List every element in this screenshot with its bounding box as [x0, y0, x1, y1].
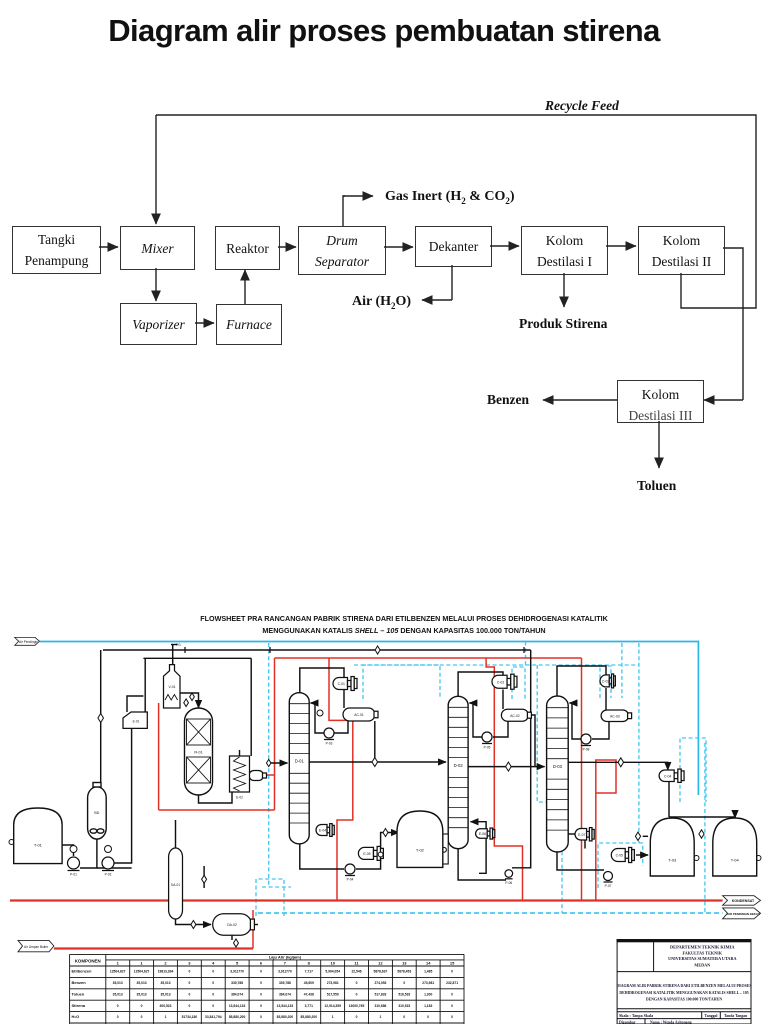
wire steam riser x274 (red) — [274, 658, 276, 810]
svg-text:AC-03: AC-03 — [610, 714, 620, 718]
wire E-02 drop — [239, 750, 241, 756]
wire D-01 overhead — [300, 668, 344, 693]
wire cw D-02 drop (cyan dashed) — [537, 665, 562, 913]
svg-text:0: 0 — [356, 1015, 358, 1019]
svg-text:35,013: 35,013 — [137, 981, 147, 985]
wire AC-01 to P-03 — [334, 721, 348, 733]
wire cw branch D-01 area (cyan dashed) — [268, 643, 270, 887]
svg-text:3,911770: 3,911770 — [278, 970, 292, 974]
wire AC-03 to P-08 — [592, 722, 609, 740]
wire D-03 bottoms — [557, 852, 604, 870]
valve D-01 feed — [266, 759, 270, 766]
svg-text:AC-01: AC-01 — [354, 713, 364, 717]
svg-text:12: 12 — [378, 960, 383, 965]
wire Air H2O outlet — [422, 265, 452, 300]
svg-text:47,438: 47,438 — [304, 992, 314, 996]
wire deaerator line — [203, 866, 205, 888]
condenser C-01 — [333, 677, 357, 691]
wire steam drop x329 (red) — [329, 658, 353, 901]
wire kondensat main (red) — [10, 899, 723, 901]
wire P-04 to T-02 riser — [356, 833, 399, 870]
wire boiler feed riser (red) — [252, 910, 254, 949]
svg-text:AIR PENDINGIN BEKAS: AIR PENDINGIN BEKAS — [727, 912, 760, 916]
tank T-04 — [713, 818, 757, 876]
wire D-02 reflux — [469, 703, 482, 737]
svg-text:85,880,200: 85,880,200 — [277, 1015, 294, 1019]
drum D-02 side pocket — [442, 834, 449, 864]
wire cooling water return bottom (cyan dashed) — [258, 912, 723, 914]
box Kolom Destilasi II — [638, 226, 725, 275]
svg-text:AC-02: AC-02 — [510, 714, 520, 718]
svg-text:BD: BD — [94, 811, 99, 815]
wire sub header — [143, 657, 251, 659]
accumulator DA-02 — [213, 914, 255, 936]
svg-text:D-02: D-02 — [454, 763, 464, 768]
svg-text:DEHIDROGENASI KATALITIK MENGGU: DEHIDROGENASI KATALITIK MENGGUNAKAN KATA… — [619, 991, 748, 995]
stream flag D-02 product — [506, 762, 512, 771]
svg-text:0: 0 — [356, 981, 358, 985]
valve between T-03 T-04 — [699, 830, 704, 838]
stream table — [70, 954, 464, 1024]
wire V-01 riser — [172, 650, 174, 665]
svg-text:12,914,359: 12,914,359 — [324, 1004, 341, 1008]
svg-text:0: 0 — [427, 1015, 429, 1019]
svg-text:T-03: T-03 — [668, 858, 677, 863]
svg-text:C-03: C-03 — [602, 680, 609, 684]
pump P-01 — [68, 857, 80, 877]
vessel DA-01 — [169, 848, 183, 919]
svg-text:3: 3 — [188, 960, 191, 965]
wire D-01 product — [309, 761, 446, 763]
wire steam bottom left (red) — [159, 809, 275, 811]
arrow Produk Stirena — [563, 273, 565, 307]
box Dekanter — [415, 226, 492, 267]
svg-text:0: 0 — [260, 970, 262, 974]
condenser CO-01 — [659, 769, 684, 782]
wire cw drop x705 (cyan dashed) — [704, 743, 706, 913]
svg-text:D-03: D-03 — [553, 764, 563, 769]
wire cw riser x622 (cyan dashed) — [621, 643, 623, 698]
valve on drop x103 — [98, 714, 104, 723]
svg-text:E-05: E-05 — [363, 852, 370, 856]
svg-text:Tanda Tangan: Tanda Tangan — [724, 1014, 748, 1018]
box Kolom Destilasi I — [521, 226, 608, 275]
column D-01 — [289, 693, 309, 844]
valve above P-02 — [105, 846, 112, 853]
wire steam reactor riser (red) — [158, 703, 160, 810]
svg-text:DA-01: DA-01 — [171, 883, 180, 887]
svg-text:Air Pendingin: Air Pendingin — [19, 640, 38, 644]
svg-text:P-02: P-02 — [105, 873, 112, 877]
svg-text:0: 0 — [260, 1004, 262, 1008]
wire fuel gas vent — [172, 645, 174, 651]
flag KONDENSAT — [723, 896, 761, 906]
exchanger E-02 coil — [230, 756, 250, 800]
title block — [617, 940, 751, 1024]
condenser C-02 — [492, 674, 517, 689]
svg-text:1: 1 — [332, 1015, 334, 1019]
label Gas Inert — [385, 189, 515, 206]
svg-text:13: 13 — [402, 960, 407, 965]
svg-text:0: 0 — [212, 1004, 214, 1008]
svg-text:4: 4 — [212, 960, 215, 965]
svg-text:T-04: T-04 — [731, 858, 740, 863]
wire D-02 overhead — [458, 672, 503, 696]
pump P-08 — [581, 734, 591, 752]
valve DA-02 inlet — [191, 921, 196, 929]
svg-text:0: 0 — [403, 981, 405, 985]
svg-text:2: 2 — [164, 960, 167, 965]
svg-text:384,074: 384,074 — [231, 992, 243, 996]
pump P-03 — [324, 728, 334, 746]
svg-text:P-03: P-03 — [326, 742, 333, 746]
svg-text:8: 8 — [308, 960, 311, 965]
svg-text:273,981: 273,981 — [327, 981, 339, 985]
svg-text:3,771: 3,771 — [305, 1004, 313, 1008]
wire D-03 reflux — [570, 703, 582, 739]
wire R-01 bottoms — [199, 792, 233, 803]
svg-text:Laju Alir (kg/jam): Laju Alir (kg/jam) — [269, 955, 302, 960]
svg-text:Benzen: Benzen — [72, 980, 87, 985]
svg-text:12504,627: 12504,627 — [134, 970, 150, 974]
label Air (H2O) — [352, 294, 411, 311]
box Mixer — [120, 226, 195, 270]
svg-text:15: 15 — [450, 960, 455, 965]
pump P-09 — [604, 872, 613, 889]
label fuel gas — [176, 643, 181, 647]
svg-text:85,880,200: 85,880,200 — [301, 1015, 318, 1019]
wire V-01 to R-01 — [180, 693, 199, 708]
svg-text:6: 6 — [260, 960, 263, 965]
svg-text:P-05: P-05 — [484, 746, 491, 750]
svg-text:0: 0 — [451, 970, 453, 974]
accumulator AC-02 — [501, 709, 531, 721]
svg-text:3,911770: 3,911770 — [230, 970, 244, 974]
pump P-02 — [102, 857, 114, 877]
arrow Kolom Destilasi I to II — [606, 245, 636, 247]
svg-text:517,559: 517,559 — [327, 992, 339, 996]
svg-text:Nama : Wenda Aritonang: Nama : Wenda Aritonang — [650, 1020, 692, 1024]
wire DA-01 to DA-02 — [176, 919, 212, 925]
vaporizer F-01 — [164, 665, 181, 708]
flowsheet title — [200, 614, 608, 635]
wire C-03 to AC-03 — [605, 688, 607, 710]
valve on feed header — [375, 646, 380, 654]
column D-02 — [448, 696, 468, 848]
wire steam P-07 loop (red) — [596, 760, 616, 901]
svg-text:0: 0 — [451, 1004, 453, 1008]
valve E-05 line — [383, 829, 388, 837]
condenser E-06 heater — [476, 828, 495, 839]
svg-text:384,074: 384,074 — [279, 992, 291, 996]
svg-text:19813,394: 19813,394 — [158, 970, 174, 974]
svg-text:0: 0 — [212, 970, 214, 974]
wire cw return small (cyan dashed) — [262, 886, 291, 888]
box Furnace — [216, 304, 282, 345]
svg-text:339,788: 339,788 — [231, 981, 243, 985]
arrow Dekanter to Kolom Destilasi I — [490, 245, 519, 247]
wire cw C-03 loop (cyan dashed) — [600, 666, 611, 698]
svg-text:35,013: 35,013 — [160, 992, 170, 996]
svg-text:0: 0 — [403, 1015, 405, 1019]
wire DA-02 right — [251, 924, 258, 926]
svg-text:DENGAN KAPASITAS 100.000 TON/T: DENGAN KAPASITAS 100.000 TON/TAHUN — [646, 998, 723, 1002]
svg-text:E-06: E-06 — [479, 832, 486, 836]
svg-text:V-01: V-01 — [169, 685, 176, 689]
valve near R-01 top b — [184, 699, 189, 707]
svg-text:0: 0 — [188, 992, 190, 996]
condenser E-07 reboiler — [611, 847, 634, 862]
pump P-06 — [505, 870, 513, 885]
svg-text:5878,637: 5878,637 — [374, 970, 388, 974]
svg-text:KOMPONEN: KOMPONEN — [75, 959, 101, 964]
svg-text:85,880,200: 85,880,200 — [229, 1015, 246, 1019]
svg-text:P-01: P-01 — [70, 873, 77, 877]
accumulator E-03 — [249, 771, 267, 781]
svg-text:0: 0 — [117, 1015, 119, 1019]
svg-text:14: 14 — [426, 960, 431, 965]
wire Kolom Destilasi II to III — [704, 248, 743, 400]
svg-text:E-07: E-07 — [578, 833, 585, 837]
svg-text:0: 0 — [212, 992, 214, 996]
wire T-01 outlet — [62, 845, 73, 856]
svg-text:33,841,794: 33,841,794 — [205, 1015, 222, 1019]
svg-text:13,544,133: 13,544,133 — [229, 1004, 246, 1008]
svg-text:FLOWSHEET PRA RANCANGAN PABRIK: FLOWSHEET PRA RANCANGAN PABRIK STIRENA D… — [200, 614, 608, 623]
svg-text:1: 1 — [379, 1015, 381, 1019]
svg-text:0: 0 — [188, 981, 190, 985]
label Toluen — [637, 478, 676, 494]
wire steam drop x486 (red) — [486, 658, 522, 901]
svg-text:22,546: 22,546 — [351, 970, 361, 974]
box Vaporizer — [120, 303, 197, 345]
svg-text:300,523: 300,523 — [160, 1004, 172, 1008]
arrow Mixer to Vaporizer — [155, 268, 157, 301]
wire P-02 discharge — [97, 867, 132, 869]
condenser E-08 reboiler — [575, 828, 594, 841]
drum E-01 — [123, 712, 147, 728]
svg-text:E-01: E-01 — [133, 720, 140, 724]
wire drop x145 to E-01 — [144, 658, 146, 712]
arrow Furnace to Reaktor — [244, 270, 246, 304]
svg-text:1: 1 — [165, 1015, 167, 1019]
box Tangki Penampung — [12, 226, 101, 274]
tank T-01 — [14, 808, 62, 864]
svg-text:T-01: T-01 — [34, 842, 43, 847]
svg-text:517,833: 517,833 — [374, 992, 386, 996]
wire fuel gas arrow — [171, 644, 178, 646]
wire Gas Inert vent — [343, 196, 373, 226]
svg-text:P-08: P-08 — [583, 748, 590, 752]
wire steam E-03 connect (red) — [246, 774, 275, 776]
svg-text:Tanggal: Tanggal — [705, 1014, 718, 1018]
svg-text:45,609: 45,609 — [304, 981, 314, 985]
column D-03 — [547, 696, 569, 852]
wire E-01 riser to V-01 — [127, 696, 143, 712]
stream flag D-01 product — [372, 758, 378, 767]
wire D-03 product — [568, 762, 668, 770]
svg-text:1,485: 1,485 — [424, 970, 432, 974]
svg-text:0: 0 — [260, 1015, 262, 1019]
svg-text:MENGGUNAKAN KATALIS SHELL – 10: MENGGUNAKAN KATALIS SHELL – 105 DENGAN K… — [262, 626, 545, 635]
wire AC-02 to P-05 — [493, 721, 508, 737]
vessel E-01 capsule — [88, 783, 107, 840]
svg-text:FAKULTAS TEKNIK: FAKULTAS TEKNIK — [683, 951, 723, 956]
svg-text:339,788: 339,788 — [279, 981, 291, 985]
svg-text:FG: FG — [176, 643, 181, 647]
wire cw riser x639 (cyan dashed) — [638, 643, 640, 843]
reactor R-01 — [185, 708, 213, 795]
wire E-06 drop — [479, 838, 486, 873]
valve T-04 side — [756, 856, 761, 861]
svg-text:DEPARTEMEN TEKNIK KIMIA: DEPARTEMEN TEKNIK KIMIA — [670, 945, 735, 950]
wire AC-02 distillate — [528, 715, 535, 767]
wire cw C-05 box (cyan dashed) — [598, 843, 643, 888]
wire P-01 discharge — [80, 839, 97, 868]
pump P-05 — [482, 732, 492, 750]
wire D-01 feed — [270, 762, 288, 764]
wire DA-01 feed — [175, 820, 177, 848]
svg-text:516,533: 516,533 — [398, 992, 410, 996]
svg-text:274,053: 274,053 — [374, 981, 386, 985]
svg-text:0: 0 — [451, 1015, 453, 1019]
junction ticks on feed header — [185, 647, 524, 653]
svg-text:0: 0 — [141, 1004, 143, 1008]
svg-text:DIAGRAM ALIR PABRIK STIRENA DA: DIAGRAM ALIR PABRIK STIRENA DARI ETILBEN… — [616, 984, 751, 988]
wire cw cooler box (cyan dashed) — [680, 738, 706, 802]
svg-text:Toluen: Toluen — [72, 991, 85, 996]
svg-text:51734,180: 51734,180 — [182, 1015, 198, 1019]
svg-text:5878,453: 5878,453 — [397, 970, 411, 974]
valve above P-01 — [70, 846, 77, 853]
arrow Toluen outlet — [658, 421, 660, 468]
valve near R-01 top a — [190, 693, 195, 701]
svg-text:13,544,133: 13,544,133 — [277, 1004, 294, 1008]
svg-text:1,183: 1,183 — [424, 1004, 432, 1008]
svg-text:0: 0 — [260, 981, 262, 985]
svg-text:R-01: R-01 — [194, 751, 202, 755]
wire AC-01 distillate — [374, 721, 376, 762]
wire cw C-02 loop (cyan dashed) — [512, 667, 525, 699]
svg-text:T-02: T-02 — [416, 848, 425, 853]
svg-text:35,013: 35,013 — [113, 981, 123, 985]
wire recycle feed loop — [156, 115, 756, 308]
wire D-01 reflux — [311, 703, 325, 733]
wire E-02 riser — [250, 658, 252, 756]
arrow Vaporizer to Furnace — [195, 322, 214, 324]
wire C-02 to AC-02 — [502, 690, 504, 710]
wire D-01 bottoms — [300, 844, 344, 869]
svg-text:1: 1 — [140, 960, 143, 965]
wire cw DA-02 box (cyan dashed) — [256, 879, 284, 916]
wire cooling water main (cyan) — [40, 642, 699, 796]
label Benzen — [487, 392, 529, 408]
svg-text:MEDAN: MEDAN — [694, 963, 710, 968]
svg-text:0: 0 — [188, 970, 190, 974]
condenser E-05 heater — [358, 846, 383, 860]
svg-text:E-04: E-04 — [319, 829, 326, 833]
wire T-03 inlet — [643, 835, 648, 837]
box Kolom Destilasi III — [617, 380, 704, 423]
wire E-07 to T-03 — [636, 854, 648, 856]
svg-text:1: 1 — [117, 960, 120, 965]
svg-text:0: 0 — [141, 1015, 143, 1019]
svg-text:0: 0 — [188, 1004, 190, 1008]
svg-text:E-02: E-02 — [236, 796, 243, 800]
svg-text:35,013: 35,013 — [160, 981, 170, 985]
svg-text:P-07: P-07 — [605, 884, 612, 888]
wire DA-02 bottom — [231, 935, 233, 940]
svg-text:C-01: C-01 — [338, 682, 345, 686]
svg-text:5,904,054: 5,904,054 — [325, 970, 340, 974]
svg-text:35,013: 35,013 — [113, 992, 123, 996]
flag Air Pendingin — [15, 637, 40, 645]
wire steam top header (red) — [275, 657, 582, 659]
wire cw mid header (cyan dashed) — [354, 664, 639, 666]
wire air umpan boiler (red) — [54, 947, 253, 949]
svg-text:11: 11 — [354, 960, 359, 965]
wire E-01 to P-02 — [115, 728, 132, 863]
pump P-04 — [345, 864, 355, 882]
wire cw C-01 loop (cyan dashed) — [363, 665, 440, 699]
svg-text:DA-02: DA-02 — [227, 923, 237, 927]
valve T-03 side — [694, 856, 699, 861]
valve T-03 inlet — [635, 832, 640, 840]
wire tank top header — [669, 817, 735, 818]
svg-text:C-05: C-05 — [616, 854, 623, 858]
tank T-02 — [397, 811, 443, 867]
arrow Tangki to Mixer — [99, 246, 118, 248]
valve CL-01 — [378, 852, 383, 857]
wire header drop x531 — [512, 650, 531, 868]
valve DA-01 line — [202, 875, 207, 883]
flag AIR PENDINGIN BEKAS — [723, 908, 761, 919]
svg-text:KONDENSAT: KONDENSAT — [732, 899, 755, 903]
wire cw C-02 riser (cyan dashed) — [525, 642, 527, 668]
svg-text:P-06: P-06 — [505, 881, 512, 885]
stream flag D-03 product — [618, 758, 624, 767]
svg-text:C-02: C-02 — [497, 680, 504, 684]
tank T-03 — [650, 818, 694, 876]
svg-text:310,686: 310,686 — [374, 1004, 386, 1008]
svg-text:Etilbenzen: Etilbenzen — [72, 969, 93, 974]
condenser E-04 reboiler — [316, 824, 334, 837]
wire E-06 reflux — [471, 822, 487, 830]
svg-text:35,013: 35,013 — [137, 992, 147, 996]
page title — [0, 13, 768, 49]
svg-text:Digambar: Digambar — [619, 1020, 636, 1024]
wire E-08 out — [584, 840, 586, 849]
svg-text:273,981: 273,981 — [422, 981, 434, 985]
svg-text:0: 0 — [212, 981, 214, 985]
valve DA-02 bottom — [234, 939, 239, 947]
valve reflux D-01 — [317, 710, 323, 716]
svg-text:310,515: 310,515 — [398, 1004, 410, 1008]
arrow Reaktor to Drum Separator — [278, 246, 296, 248]
wire drop x103 — [100, 650, 102, 786]
svg-text:7,717: 7,717 — [305, 970, 313, 974]
arrow Benzen outlet — [543, 399, 617, 401]
svg-text:0: 0 — [260, 992, 262, 996]
label Recycle Feed — [545, 98, 619, 114]
svg-text:0: 0 — [117, 1004, 119, 1008]
svg-text:5: 5 — [236, 960, 239, 965]
wire D-03 to E-08 — [568, 833, 575, 835]
svg-text:1,300: 1,300 — [424, 992, 432, 996]
label Produk Stirena — [519, 316, 607, 332]
wire D-02 bottoms — [458, 849, 506, 880]
svg-text:232,871: 232,871 — [446, 981, 458, 985]
